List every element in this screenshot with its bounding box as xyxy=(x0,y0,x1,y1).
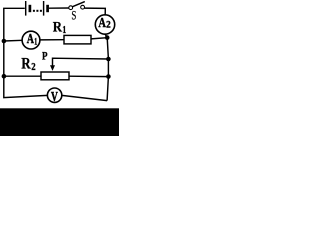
wire: right rail (A2 down to bottom-right corner) xyxy=(105,34,108,100)
battery B1: long plate 2 xyxy=(43,1,45,16)
voltmeter V xyxy=(47,88,61,102)
wire: R1 to right rail xyxy=(91,38,107,39)
svg-text:P: P xyxy=(42,50,48,63)
switch S: lever xyxy=(73,2,85,7)
svg-text:A: A xyxy=(98,15,106,30)
battery B1: long plate 1 xyxy=(25,1,27,16)
node: junction right rail / R1 row xyxy=(105,35,110,40)
wire: switch to A2 (top-right corner) xyxy=(85,8,106,15)
node: junction left rail / A1 row xyxy=(2,39,7,44)
node: junction left rail / R2 row xyxy=(2,74,7,79)
svg-text:2: 2 xyxy=(31,62,35,73)
ammeter A1 xyxy=(22,31,40,49)
svg-text:S: S xyxy=(71,9,76,23)
wire: left rail to R2 xyxy=(4,75,41,77)
svg-text:2: 2 xyxy=(106,20,111,31)
wire: A1 to R1 xyxy=(40,39,64,41)
resistor R1 xyxy=(64,35,91,44)
svg-text:R: R xyxy=(21,56,31,73)
svg-text:1: 1 xyxy=(62,24,66,36)
battery B1: short thick plate 1 xyxy=(29,5,32,12)
battery B1: cell dots xyxy=(33,10,42,12)
wire: left rail to A1 xyxy=(4,39,22,42)
rheostat R2: slider arrowhead xyxy=(50,65,55,71)
switch S: left contact xyxy=(69,6,73,10)
ammeter A2 xyxy=(95,15,114,34)
node: junction right rail / R2 row xyxy=(106,74,111,79)
svg-text:R: R xyxy=(53,20,62,36)
battery B1: short thick plate 2 xyxy=(46,5,49,12)
svg-text:1: 1 xyxy=(34,37,37,48)
switch S: right contact xyxy=(81,5,85,9)
node: junction right rail / slider wire xyxy=(106,57,111,62)
svg-text:A: A xyxy=(27,32,34,47)
wire: top-left loop (top wire, left rail, bottom-left wire) xyxy=(4,8,48,97)
svg-text:V: V xyxy=(51,89,58,104)
resistor R2 (rheostat body) xyxy=(41,72,69,80)
wire: bottom-right (V to corner) xyxy=(62,95,107,100)
black border bar at bottom xyxy=(0,108,119,136)
wire: battery to switch xyxy=(49,7,69,9)
wire: R2 to right rail xyxy=(69,75,108,77)
rheostat R2: slider wire to right rail xyxy=(53,58,109,66)
